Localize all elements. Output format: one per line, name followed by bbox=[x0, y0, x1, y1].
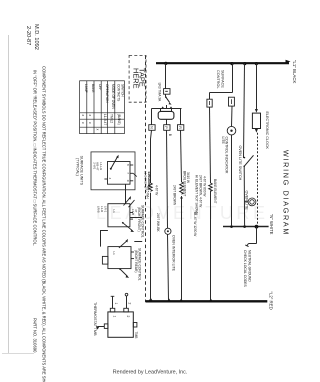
wire lamp leg bbox=[167, 130, 168, 228]
wire down from N bbox=[256, 227, 258, 244]
svg-text:LAMP: LAMP bbox=[84, 84, 88, 93]
wire bake to bus bbox=[210, 190, 212, 300]
plug box P2 bbox=[164, 125, 170, 131]
left terminal bbox=[104, 178, 107, 180]
svg-text:(BAKE): (BAKE) bbox=[117, 114, 121, 125]
svg-text:L1-B 2497 W: L1-B 2497 W bbox=[144, 171, 148, 189]
svg-text:LITE: LITE bbox=[221, 137, 225, 145]
socket to plug wire bbox=[166, 119, 168, 124]
oven lamp socket bbox=[158, 111, 174, 119]
wire switch to branch bbox=[166, 105, 168, 109]
svg-text:x: x bbox=[95, 129, 99, 131]
wire bake leg bbox=[210, 107, 211, 183]
svg-text:SURFACE: SURFACE bbox=[221, 70, 225, 88]
wire broil leg bbox=[181, 130, 182, 182]
table horizontal lines bbox=[80, 112, 125, 114]
thermostat box TMB bbox=[108, 312, 133, 337]
right side bump bbox=[133, 323, 137, 328]
svg-text:OPERATION: OPERATION bbox=[105, 84, 109, 103]
svg-text:2: 2 bbox=[127, 303, 131, 305]
terminal ticks lower box bbox=[131, 251, 134, 253]
svg-text:NEUTRAL GROUND: NEUTRAL GROUND bbox=[248, 250, 252, 282]
control indicator lamp DS2 bbox=[227, 126, 236, 135]
svg-text:L1-B.4T: L1-B.4T bbox=[103, 114, 107, 125]
wire fuse to switch bbox=[165, 94, 167, 97]
svg-text:Rendered by LeadVenture, Inc.: Rendered by LeadVenture, Inc. bbox=[113, 370, 188, 376]
terminal ticks bbox=[130, 212, 133, 214]
svg-text:M.D. 1092: M.D. 1092 bbox=[33, 24, 39, 50]
bus L2 red bbox=[146, 300, 268, 302]
fold line dashed bbox=[145, 56, 147, 303]
svg-text:LR-B: LR-B bbox=[97, 206, 101, 213]
svg-text:2497 BROWN: 2497 BROWN bbox=[173, 185, 177, 206]
plug box P3 bbox=[178, 125, 184, 131]
C blade lower box bbox=[119, 268, 121, 270]
dashed wire clock to N bbox=[257, 133, 259, 226]
svg-text:1: 1 bbox=[114, 303, 118, 305]
lower box bbox=[108, 247, 131, 269]
svg-text:L1-B: L1-B bbox=[131, 209, 135, 215]
wire element to bus bbox=[150, 193, 152, 300]
oven lite switch S2 bbox=[244, 157, 246, 159]
svg-text:“N” WHITE: “N” WHITE bbox=[269, 214, 274, 235]
svg-text:2-20-87: 2-20-87 bbox=[25, 26, 31, 45]
svg-text:OVEN LITE SWITCH: OVEN LITE SWITCH bbox=[238, 146, 242, 181]
table frame bbox=[80, 81, 125, 134]
svg-text:CONTROL: CONTROL bbox=[216, 70, 220, 89]
clock box U1 bbox=[252, 113, 260, 128]
left stub wire bbox=[98, 326, 105, 328]
wire from bus bbox=[244, 63, 245, 158]
broil element R1 bbox=[180, 182, 184, 194]
wire switch to N bbox=[243, 166, 245, 226]
wire from bus bbox=[256, 63, 258, 109]
fuse box F1 bbox=[164, 89, 170, 95]
wire lamp to bus bbox=[168, 234, 169, 300]
terminal ticks bbox=[130, 164, 133, 166]
bus L1 black bbox=[156, 62, 289, 64]
plug arrow bottom bbox=[255, 129, 258, 133]
svg-text:BAKE ELEMENT: BAKE ELEMENT bbox=[213, 179, 217, 203]
outer box bbox=[91, 152, 135, 190]
svg-text:x: x bbox=[81, 115, 85, 117]
top terminal bumps bbox=[110, 308, 115, 312]
blades top right bbox=[119, 241, 127, 248]
svg-text:BAKE: BAKE bbox=[91, 84, 95, 93]
svg-text:(RIGHT FRONT): (RIGHT FRONT) bbox=[137, 207, 141, 232]
wire C-terminal down bbox=[125, 184, 127, 204]
svg-text:2497 WH-BK: 2497 WH-BK bbox=[156, 213, 160, 232]
wire left bbox=[249, 243, 257, 245]
svg-text:LEADVENTURE: LEADVENTURE bbox=[96, 203, 269, 223]
svg-text:ELECTRONIC CLOCK: ELECTRONIC CLOCK bbox=[265, 112, 269, 150]
svg-text:(TYPICAL): (TYPICAL) bbox=[76, 158, 80, 176]
wire to fuse left bbox=[209, 93, 211, 100]
svg-text:2497 BROWN, 4-67 W: 2497 BROWN, 4-67 W bbox=[199, 175, 203, 207]
bake element R2 bbox=[209, 183, 213, 191]
stub caps bbox=[111, 295, 115, 297]
C blade lower bbox=[122, 222, 124, 224]
tape-here dashed box bbox=[129, 56, 146, 103]
svg-text:WIRING DIAGRAM: WIRING DIAGRAM bbox=[282, 150, 291, 236]
page edge artifact line bbox=[8, 35, 10, 353]
svg-text:SWITCH: SWITCH bbox=[121, 84, 125, 97]
svg-text:2: 2 bbox=[126, 316, 130, 318]
wire lamp to N bbox=[231, 135, 233, 226]
stub wire right bbox=[130, 217, 142, 219]
fuse box left bbox=[207, 99, 212, 107]
side small box bbox=[102, 256, 108, 264]
branch header wire bbox=[152, 108, 182, 110]
terminal stub wires bbox=[112, 297, 114, 309]
oven lamp DS3 double circle bbox=[245, 201, 249, 203]
ground tick bbox=[247, 244, 249, 246]
svg-text:HI ELEMENT NOT SHOWN: HI ELEMENT NOT SHOWN bbox=[195, 175, 199, 215]
plug arrow top bbox=[255, 109, 258, 113]
svg-text:x: x bbox=[88, 115, 92, 117]
switch S1 blade bbox=[165, 96, 167, 98]
switch blade inside bbox=[110, 168, 112, 170]
wire from bus to fuse F1 bbox=[165, 63, 167, 88]
svg-text:1: 1 bbox=[113, 316, 117, 318]
junction dots on N line bbox=[230, 225, 233, 228]
table vertical lines bbox=[86, 81, 88, 134]
wire ground leg bbox=[151, 130, 152, 183]
svg-text:(RIGHT REAR): (RIGHT REAR) bbox=[134, 250, 138, 272]
connector arrows bbox=[161, 106, 164, 108]
blades top right bbox=[124, 198, 130, 205]
lamp socket stubs bbox=[160, 109, 162, 112]
svg-text:2-W1: 2-W1 bbox=[93, 162, 97, 169]
svg-text:THERMOSTAT TMB: THERMOSTAT TMB bbox=[93, 302, 97, 336]
svg-text:BL-67 W 1200 W: BL-67 W 1200 W bbox=[193, 212, 197, 236]
element R3 on ground-side wire bbox=[149, 183, 153, 191]
svg-text:IN “OFF” OR “RELEASED” POSITIO: IN “OFF” OR “RELEASED” POSITION. □ INDIC… bbox=[33, 70, 38, 246]
side wires of branch bbox=[151, 109, 153, 125]
svg-text:PART NO. 310690: PART NO. 310690 bbox=[33, 318, 38, 353]
neutral line N bbox=[223, 226, 269, 228]
wire to indicator lamp bbox=[231, 106, 234, 126]
stub wire right lower bbox=[134, 241, 142, 243]
svg-text:OFF: OFF bbox=[98, 84, 102, 90]
svg-text:x: x bbox=[88, 122, 92, 124]
fuse box right bbox=[229, 97, 235, 106]
connecting wire between boxes bbox=[101, 231, 108, 247]
svg-text:LR3 TMA 3A: LR3 TMA 3A bbox=[158, 83, 162, 102]
bottom scan artifact bbox=[2, 353, 34, 355]
svg-text:MODE OF OVEN: MODE OF OVEN bbox=[111, 84, 115, 109]
junction triangles on L2 bus bbox=[149, 298, 153, 301]
svg-text:OVEN INTERIOR LITE: OVEN INTERIOR LITE bbox=[172, 235, 176, 272]
svg-text:4-67 W 800 W: 4-67 W 800 W bbox=[202, 176, 206, 196]
branch wire left bbox=[210, 92, 233, 94]
svg-text:OVEN LITE: OVEN LITE bbox=[244, 191, 248, 211]
svg-text:CHECK LOCAL CODES: CHECK LOCAL CODES bbox=[243, 250, 247, 288]
svg-text:COMPONENT SYMBOLS DO NOT REFLE: COMPONENT SYMBOLS DO NOT REFLECT TRUE CO… bbox=[42, 66, 47, 382]
oven interior lamp DS1 bbox=[165, 228, 171, 234]
svg-text:B: B bbox=[168, 134, 172, 136]
svg-text:4-67 W: 4-67 W bbox=[155, 185, 159, 195]
svg-text:“L1” BLACK: “L1” BLACK bbox=[292, 60, 297, 83]
svg-text:CONTACTS: CONTACTS bbox=[117, 84, 121, 101]
svg-text:“L2” RED: “L2” RED bbox=[268, 292, 273, 310]
upper box bbox=[108, 204, 130, 227]
svg-text:TMB: TMB bbox=[134, 332, 138, 340]
left side bump bbox=[104, 324, 108, 329]
svg-text:BROIL ELEMENT: BROIL ELEMENT bbox=[183, 171, 187, 196]
svg-text:L1: L1 bbox=[112, 252, 116, 256]
plug box P1 bbox=[149, 125, 155, 131]
inner box bbox=[108, 162, 131, 185]
svg-text:HERE: HERE bbox=[131, 68, 140, 89]
svg-text:x: x bbox=[81, 122, 85, 124]
wire bus to split bbox=[232, 63, 234, 92]
wire broil to bus bbox=[181, 196, 183, 300]
svg-text:TM-L2: TM-L2 bbox=[109, 114, 113, 123]
svg-text:3410 W: 3410 W bbox=[186, 172, 190, 183]
bus L1 end arrow bbox=[286, 60, 291, 64]
junction dots on L1 bus bbox=[164, 62, 167, 65]
svg-text:L1: L1 bbox=[112, 210, 116, 214]
